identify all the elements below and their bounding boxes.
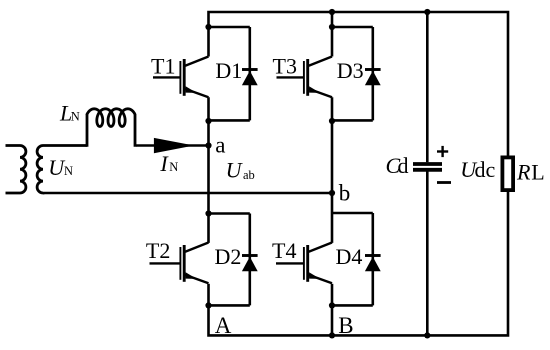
svg-text:N: N xyxy=(64,164,73,178)
svg-text:A: A xyxy=(215,313,232,338)
svg-text:D4: D4 xyxy=(336,244,363,269)
svg-text:D1: D1 xyxy=(215,58,242,83)
svg-text:a: a xyxy=(215,133,225,158)
svg-text:T2: T2 xyxy=(146,238,170,263)
svg-text:D3: D3 xyxy=(337,58,364,83)
svg-text:D2: D2 xyxy=(215,244,242,269)
svg-text:U: U xyxy=(226,158,244,183)
svg-text:N: N xyxy=(169,160,178,174)
svg-text:R: R xyxy=(516,160,531,185)
svg-text:b: b xyxy=(339,180,351,205)
svg-text:T3: T3 xyxy=(273,54,297,79)
svg-text:dc: dc xyxy=(475,157,496,182)
svg-text:B: B xyxy=(338,313,353,338)
svg-text:L: L xyxy=(531,160,544,185)
svg-text:ab: ab xyxy=(243,168,255,182)
svg-text:T4: T4 xyxy=(272,238,296,263)
svg-text:N: N xyxy=(71,110,80,124)
svg-text:d: d xyxy=(398,153,409,178)
svg-text:T1: T1 xyxy=(151,54,175,79)
